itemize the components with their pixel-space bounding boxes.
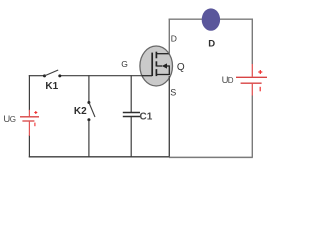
- transistor Q1 source stub: [156, 65, 169, 75]
- wire top horizontal: [169, 18, 253, 20]
- wire source vertical: [168, 76, 170, 157]
- wire bottom left horizontal: [29, 156, 169, 158]
- transistor Q1 body arrow: [156, 63, 169, 68]
- label K1: [45, 81, 58, 92]
- svg-text:C1: C1: [140, 111, 153, 122]
- label D (drain pin): [171, 34, 177, 44]
- transistor Q1 channel segments: [155, 52, 157, 76]
- svg-text:D: D: [228, 76, 234, 85]
- svg-text:S: S: [170, 88, 176, 98]
- capacitor C1: [123, 113, 140, 117]
- wire K2 branch lower: [88, 120, 90, 157]
- svg-text:D: D: [208, 39, 215, 50]
- wire C1 branch upper: [130, 75, 132, 112]
- wire K2 branch upper: [88, 75, 90, 101]
- svg-text:Q: Q: [177, 62, 185, 73]
- label S (source pin): [170, 88, 176, 98]
- label Q: [177, 62, 185, 73]
- svg-text:G: G: [10, 115, 16, 124]
- wire left vertical (UG branch upper): [28, 75, 30, 110]
- wire gate bus (top-left horizontal): [29, 75, 143, 77]
- svg-text:K1: K1: [45, 81, 58, 92]
- voltage source UD: [236, 64, 267, 96]
- label K2: [74, 106, 87, 117]
- switch K2: [87, 101, 95, 121]
- transistor Q1 drain stub: [156, 53, 169, 55]
- transistor Q1 MOSFET body circle: [140, 46, 173, 86]
- diode D (purple disc): [202, 8, 220, 30]
- transistor Q1 gate bar: [151, 53, 153, 76]
- label UD: [222, 75, 234, 86]
- wire right vertical lower: [251, 96, 253, 158]
- wire right vertical upper: [251, 19, 253, 65]
- label D (diode): [208, 39, 215, 50]
- wire bottom right horizontal: [169, 156, 253, 158]
- svg-text:G: G: [121, 59, 128, 69]
- svg-text:D: D: [171, 34, 177, 44]
- wire drain vertical: [168, 19, 170, 54]
- voltage source UG: [20, 110, 39, 136]
- svg-text:K2: K2: [74, 106, 87, 117]
- label UG: [3, 114, 16, 125]
- label C1: [140, 111, 153, 122]
- wire left vertical (UG branch lower): [28, 135, 30, 157]
- wire C1 branch lower: [130, 117, 132, 157]
- label G (gate pin): [121, 59, 128, 69]
- transistor Q1 gate lead: [142, 75, 153, 77]
- switch K1: [43, 70, 61, 77]
